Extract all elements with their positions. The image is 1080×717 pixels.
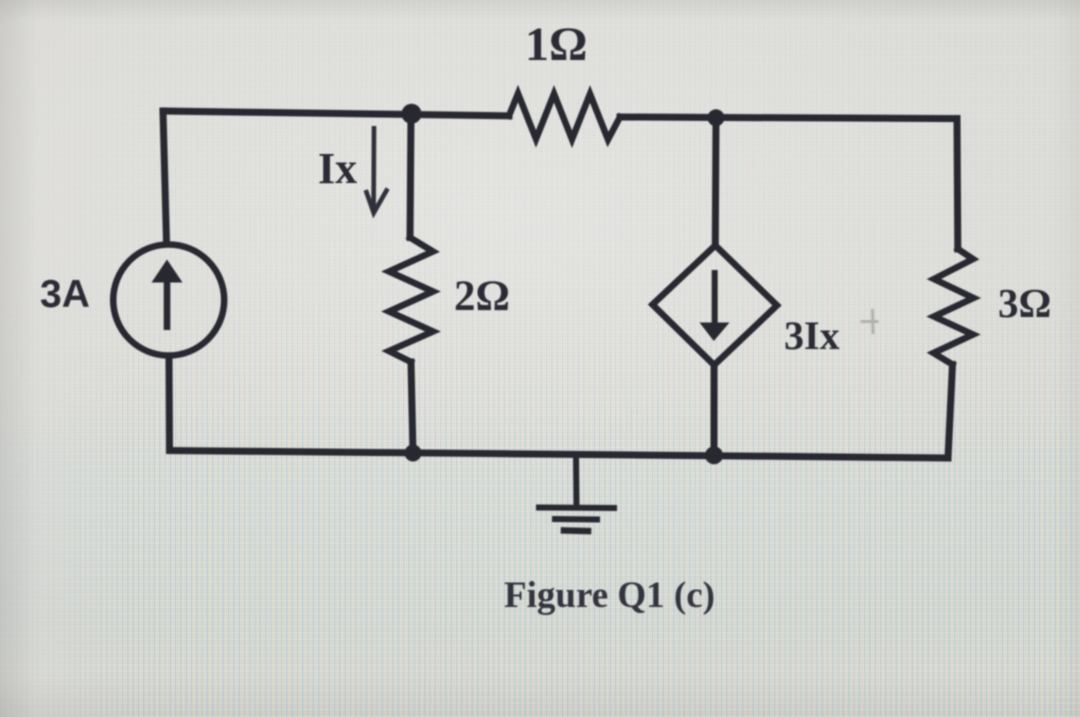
wire node A to R2 <box>410 114 411 238</box>
node A dot <box>402 104 422 124</box>
wire top-right horizontal <box>620 117 957 119</box>
wire diamond to bottom node <box>711 365 718 455</box>
current Ix arrow <box>371 126 376 211</box>
node D dot <box>705 446 723 464</box>
current source I1 arrow <box>164 281 171 330</box>
resistor R2 2ohm zigzag <box>389 238 433 363</box>
wire R2 to bottom node <box>411 362 413 453</box>
node C dot <box>405 445 422 462</box>
svg-text:3Ω: 3Ω <box>998 280 1051 326</box>
ground bar 1 <box>539 505 614 512</box>
svg-text:2Ω: 2Ω <box>454 273 510 320</box>
dependent source D1 arrow <box>712 270 718 324</box>
ground stem <box>573 455 580 508</box>
svg-text:1Ω: 1Ω <box>525 18 587 71</box>
wire bottom horizontal <box>170 451 949 459</box>
wire left upper vertical <box>163 111 167 242</box>
ghost plus artifact <box>861 309 879 334</box>
wire right upper vertical <box>954 119 962 249</box>
resistor R3 3ohm zigzag <box>934 249 974 365</box>
wire top-left horizontal <box>163 111 509 116</box>
node B dot <box>708 109 725 126</box>
wire right lower vertical <box>948 365 953 458</box>
resistor R1 1ohm zigzag <box>509 94 620 140</box>
svg-text:Figure Q1 (c): Figure Q1 (c) <box>504 575 715 616</box>
ground bar 2 <box>555 516 597 523</box>
ground bar 3 <box>564 527 588 534</box>
svg-text:3A: 3A <box>40 273 90 316</box>
current source I1 3A circle <box>113 245 224 356</box>
wire node B to diamond <box>712 118 720 245</box>
svg-text:Ix: Ix <box>318 144 357 193</box>
svg-text:3Ix: 3Ix <box>784 313 840 358</box>
wire left lower vertical <box>166 358 174 451</box>
dependent current source D1 diamond <box>653 245 778 365</box>
